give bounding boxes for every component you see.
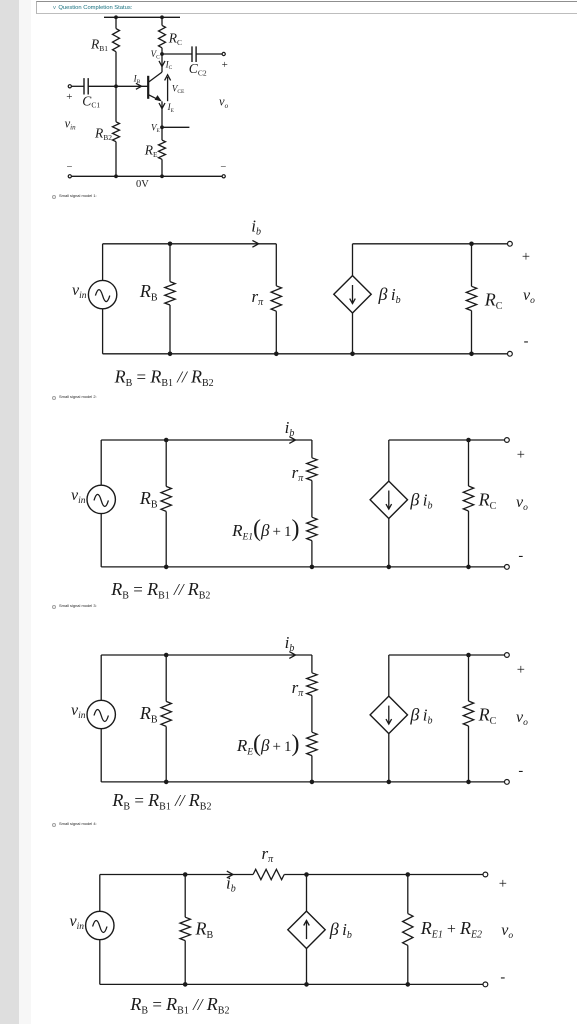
wire RC top lead m3 [468,655,470,701]
junction ground node RB2 [114,174,118,178]
wire top rail m2 [101,439,312,441]
wire base node to RB2 [115,86,117,122]
resistor R_B m1 [165,282,175,305]
wire source top lead m2 [100,440,102,485]
wire dep src top lead m2 [388,440,390,481]
svg-text:rπ: rπ [262,844,275,865]
svg-text:β ib: β ib [329,919,352,941]
resistor R_B2 [113,122,120,142]
svg-text:+: + [222,59,228,71]
arrowhead I_E arrow [159,103,165,109]
junction dep src bottom node m2 [387,565,392,570]
wire RE bottom lead m2 [311,541,313,567]
resistor R_B m3 [161,701,171,726]
terminal input terminal [68,85,71,88]
wire RB1 to base node [115,52,117,87]
wire top right rail m2 [389,439,505,441]
wire RB1 top lead [115,17,117,28]
junction dep src bottom node m1 [350,352,355,357]
svg-text:ib: ib [251,217,261,238]
wire RE top lead m4 [407,875,409,914]
junction RC top node m1 [469,242,474,247]
wire RB2 bottom lead [115,142,117,177]
wire RB top lead m1 [169,244,171,282]
svg-text:RB = RB1 // RB2: RB = RB1 // RB2 [114,366,214,389]
transistor Q1 [148,72,162,101]
wire bottom rail m4 [100,983,483,985]
svg-text:ib: ib [226,874,236,895]
svg-text:RB: RB [195,918,214,941]
source v_in model1 [88,280,116,308]
svg-text:vo: vo [501,922,513,941]
wire CC1 to base [88,85,148,87]
svg-text:VE: VE [151,122,161,134]
resistor r_pi m3 [307,673,317,696]
wire top right rail m1 [353,243,508,245]
wire ground rail 0V [71,175,222,177]
terminal v_o + terminal m1 [508,241,513,246]
arrowhead i_b arrow m2 [289,437,295,444]
wire dep src bottom lead m1 [352,313,354,354]
wire r_pi bottom lead m1 [275,311,277,354]
wire r_pi top lead m3 [311,655,313,673]
wire RC to collector node [161,48,163,54]
svg-text:CC1: CC1 [82,93,100,109]
wire source bottom lead m1 [102,309,104,354]
wire RB top lead m4 [184,875,186,918]
svg-text:vin: vin [71,487,86,506]
junction dep src bottom node m4 [304,982,309,987]
wire dep src bottom lead m2 [388,519,390,567]
svg-text:RB = RB1 // RB2: RB = RB1 // RB2 [111,790,211,813]
capacitor C_C1 [84,78,88,94]
arrowhead i_b arrow m3 [289,652,295,659]
source v_in model4 [86,911,114,939]
wire RB bottom lead m2 [165,511,167,567]
wire RC bottom lead m3 [468,726,470,782]
svg-text:-: - [518,763,523,779]
wire dep src top lead m3 [388,655,390,696]
radio option "Small signal model 4:" [52,821,116,828]
resistor r_pi m4 [253,869,284,879]
svg-text:RB: RB [139,281,158,304]
terminal v_o + terminal m4 [483,872,488,877]
terminal v_o + terminal m3 [505,653,510,658]
svg-text:+: + [522,249,530,265]
wire RE top lead [161,127,163,140]
junction ground node RE [160,174,164,178]
svg-text:RE(β + 1): RE(β + 1) [236,731,300,758]
wire RC bottom lead m2 [468,511,470,567]
svg-text:+: + [517,662,525,678]
wire VC to CC2 [162,53,192,55]
junction RC bottom node m3 [466,780,471,785]
resistor r_pi m1 [271,286,281,311]
svg-text:+: + [499,876,507,892]
wire RB top lead m2 [165,440,167,486]
wire bottom rail m1 [103,353,508,355]
svg-text:rπ: rπ [252,287,265,308]
svg-text:RC: RC [168,31,182,47]
svg-text:-: - [524,333,529,349]
wire r_pi to RE lead m2 [311,481,313,518]
wire RB bottom lead m3 [165,726,167,782]
wire RB bottom lead m4 [184,941,186,985]
junction node top-RB1 [114,15,118,19]
svg-text:RE1(β + 1): RE1(β + 1) [231,516,299,543]
wire bottom rail m3 [101,781,504,783]
svg-text:RB2: RB2 [94,126,112,142]
junction RE bottom node m2 [310,565,315,570]
svg-text:vo: vo [516,494,528,513]
resistor R_C [159,25,166,47]
wire source bottom lead m3 [100,729,102,782]
junction RE bottom node m4 [406,982,411,987]
dependent current source beta-i_b m1 [334,276,371,313]
wire V_E stub [162,126,189,128]
junction RB bottom node m2 [164,565,169,570]
terminal ground left terminal [68,175,71,178]
junction emitter node V_E [160,125,164,129]
terminal v_o - terminal m3 [505,780,510,785]
svg-text:−: − [220,162,226,173]
wire top supply rail [104,16,180,18]
radio option "Small signal model 1:" [52,193,116,200]
junction collector node V_C [160,52,164,56]
svg-text:β ib: β ib [378,284,401,306]
wire RC top lead [161,17,163,25]
junction dep src top node m4 [304,872,309,877]
resistor R_B m4 [180,917,190,940]
arrowhead I_B arrow [136,83,142,89]
svg-text:β ib: β ib [409,489,432,511]
svg-text:rπ: rπ [292,463,305,484]
wire RC bottom lead m1 [471,311,473,354]
svg-text:VCE: VCE [172,83,185,95]
resistor R_E(beta+1) m2 [307,517,317,540]
wire V_CE arrow line [167,77,169,101]
svg-text:RC: RC [484,290,503,313]
resistor R_E [159,140,166,159]
terminal ground right terminal [222,175,225,178]
dependent current source beta-i_b m4 [288,911,325,948]
svg-text:CC2: CC2 [189,61,207,77]
resistor R_E1+R_E2 m4 [403,914,413,946]
wire top rail left m4 [100,874,253,876]
svg-text:−: − [66,162,72,173]
svg-text:vin: vin [70,913,85,932]
wire RE bottom lead m4 [407,945,409,984]
svg-text:RC: RC [478,490,497,513]
svg-text:vin: vin [71,702,86,721]
terminal v_o - terminal m2 [505,565,510,570]
wire RE bottom lead [161,159,163,176]
junction RB top node m3 [164,653,169,658]
junction RB top node m4 [183,872,188,877]
terminal v_o + terminal m2 [505,438,510,443]
resistor R_B1 [113,29,120,52]
junction node top-RC [160,15,164,19]
wire CC2 to output terminal [196,53,222,55]
wire r_pi top lead m1 [275,244,277,286]
junction RB top node m2 [164,438,169,443]
svg-text:RB1: RB1 [90,37,108,53]
resistor R_C m3 [463,701,473,726]
svg-text:0V: 0V [136,179,149,190]
wire collector lead [161,54,163,72]
wire RC top lead m2 [468,440,470,486]
svg-text:-: - [518,548,523,564]
svg-text:vo: vo [523,287,535,306]
svg-text:IC: IC [165,59,173,71]
junction RC bottom node m2 [466,565,471,570]
svg-text:RE: RE [144,143,158,159]
svg-text:RE1 + RE2: RE1 + RE2 [420,918,482,941]
svg-text:vin: vin [72,282,87,301]
wire top rail right m4 [284,874,483,876]
dependent current source beta-i_b m3 [370,696,407,734]
svg-text:vo: vo [516,709,528,728]
junction base node B [114,84,118,88]
resistor R_C m2 [463,486,473,511]
junction r_pi bottom node m1 [274,352,279,357]
terminal v_o - terminal m1 [508,351,513,356]
wire top rail m1 [103,243,277,245]
svg-text:RB: RB [139,488,158,511]
svg-text:β ib: β ib [409,705,432,727]
wire bottom rail m2 [101,566,504,568]
resistor R_B m2 [161,486,171,511]
svg-text:vo: vo [219,95,229,110]
wire source top lead m3 [100,655,102,700]
wire RB bottom lead m1 [169,305,171,354]
wire RC top lead m1 [471,244,473,286]
svg-text:RB: RB [139,703,158,726]
resistor r_pi m2 [307,458,317,481]
radio option "Small signal model 3:" [52,603,116,610]
svg-text:IE: IE [167,102,175,114]
wire RB top lead m3 [165,655,167,701]
wire emitter lead [161,101,163,127]
wire source top lead m1 [102,244,104,281]
wire source bottom lead m2 [100,514,102,567]
wire r_pi top lead m2 [311,440,313,458]
wire input to CC1 [70,85,84,87]
junction RB bottom node m3 [164,780,169,785]
junction dep src bottom node m3 [387,780,392,785]
wire dep src top lead m4 [306,875,308,912]
arrowhead I_C arrow [159,61,165,67]
wire top rail m3 [101,654,312,656]
terminal output coupling terminal [222,52,225,55]
svg-text:-: - [500,970,505,986]
terminal v_o - terminal m4 [483,982,488,987]
junction RB top node m1 [168,242,173,247]
arrowhead V_CE arrowhead [165,75,171,81]
svg-text:vin: vin [65,116,77,131]
svg-text:RB = RB1 // RB2: RB = RB1 // RB2 [129,994,229,1017]
wire source top lead m4 [99,875,101,912]
svg-text:rπ: rπ [292,678,305,699]
resistor R_E(beta+1) m3 [307,732,317,755]
radio option "Small signal model 2:" [52,394,116,401]
junction RC top node m3 [466,653,471,658]
svg-text:RB = RB1 // RB2: RB = RB1 // RB2 [110,579,210,602]
svg-text:+: + [66,91,72,103]
wire RE bottom lead m3 [311,756,313,782]
junction RE top node m4 [406,872,411,877]
svg-text:VC: VC [151,49,161,61]
junction RC top node m2 [466,438,471,443]
svg-text:IB: IB [133,74,141,86]
source v_in model3 [87,700,115,728]
wire dep src top lead m1 [352,244,354,276]
junction RC bottom node m1 [469,352,474,357]
wire r_pi to RE lead m3 [311,696,313,733]
wire source bottom lead m4 [99,940,101,985]
capacitor C_C2 [192,46,196,62]
svg-text:+: + [517,447,525,463]
question completion status bar [36,1,577,14]
wire dep src bottom lead m4 [306,949,308,985]
wire top right rail m3 [389,654,505,656]
resistor R_C m1 [466,286,476,310]
svg-text:RC: RC [478,705,497,728]
arrowhead i_b arrow m4 [227,871,233,878]
junction RB bottom node m4 [183,982,188,987]
wire dep src bottom lead m3 [388,734,390,782]
svg-text:ib: ib [285,633,295,654]
arrowhead i_b arrow m1 [252,240,258,247]
source v_in model2 [87,485,115,513]
dependent current source beta-i_b m2 [370,481,407,518]
junction RB bottom node m1 [168,352,173,357]
svg-text:ib: ib [285,418,295,439]
junction RE bottom node m3 [310,780,315,785]
